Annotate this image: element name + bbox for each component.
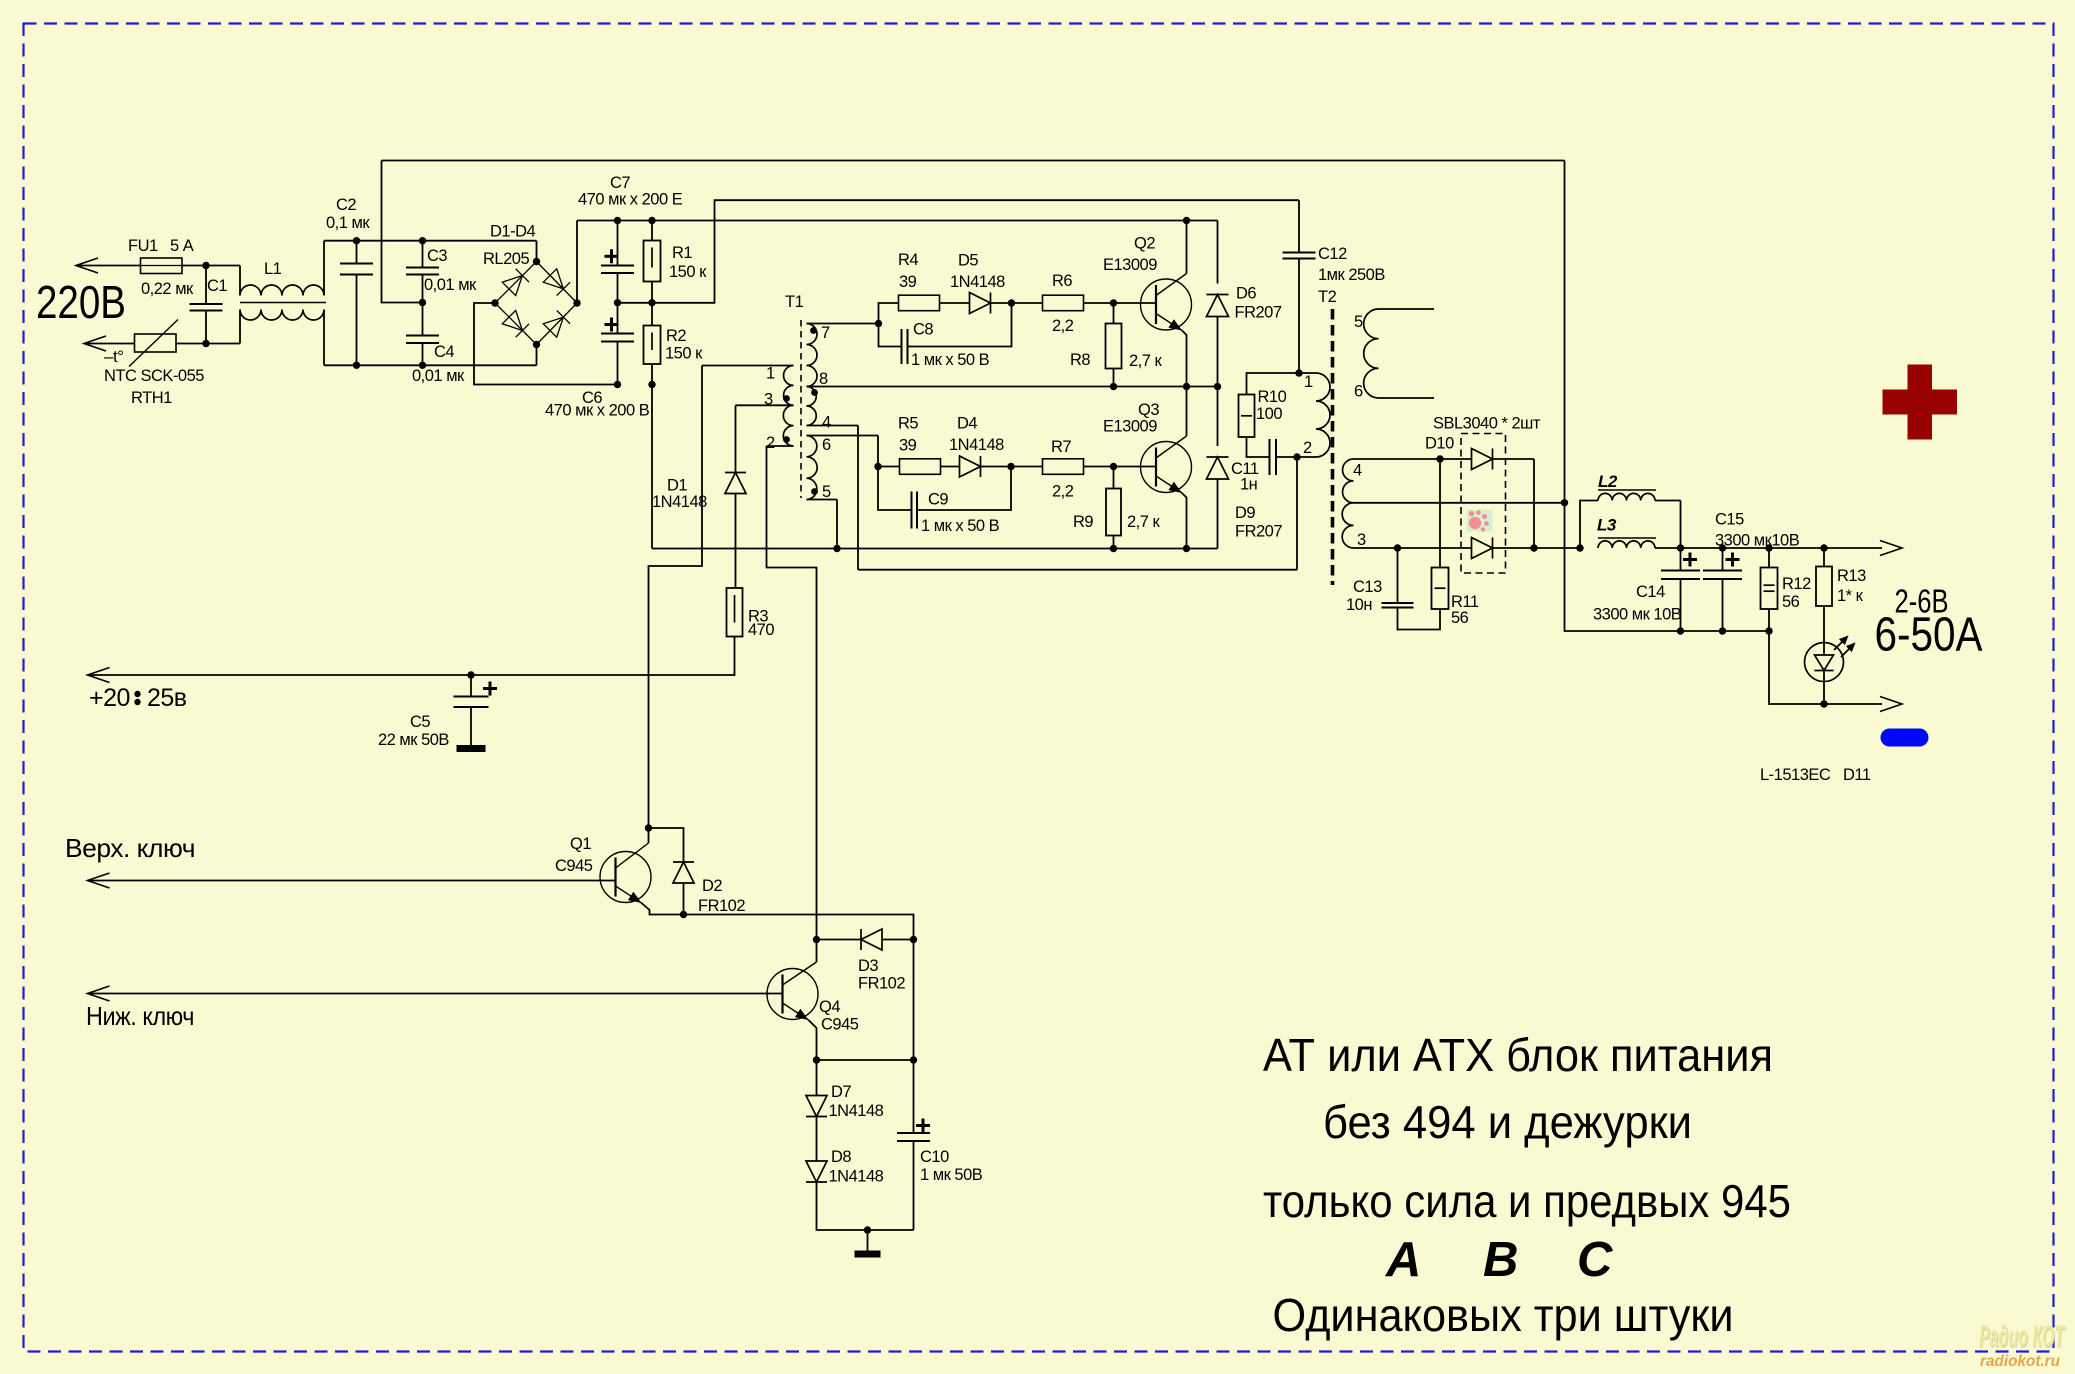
svg-text:0,01 мк: 0,01 мк bbox=[424, 276, 477, 294]
wire Q3 collector bbox=[1186, 387, 1188, 437]
T1 pin 5 wire bbox=[807, 499, 838, 501]
svg-text:L-1513EC: L-1513EC bbox=[1760, 766, 1831, 784]
svg-text:–t°: –t° bbox=[104, 347, 123, 366]
svg-text:R4: R4 bbox=[898, 251, 918, 269]
capacitor C7 bbox=[617, 221, 619, 266]
svg-text:C9: C9 bbox=[928, 491, 948, 509]
T2 pin 5 stub bbox=[1379, 308, 1435, 310]
svg-text:0,01 мк: 0,01 мк bbox=[412, 367, 465, 385]
wire minus return bbox=[1769, 631, 1882, 704]
svg-text:C1: C1 bbox=[207, 277, 227, 295]
wire Q2 collector bbox=[1186, 221, 1188, 274]
capacitor C11 bbox=[1269, 439, 1271, 475]
svg-text:Q3: Q3 bbox=[1138, 401, 1159, 419]
wire D4 to node bbox=[981, 466, 1012, 468]
node R1/R2 midpoint bbox=[648, 299, 655, 306]
svg-text:E13009: E13009 bbox=[1103, 418, 1157, 436]
node center tap bbox=[1561, 499, 1568, 506]
wire base node to Q2 bbox=[1114, 302, 1156, 304]
T1 phase dot pin 7 bbox=[810, 327, 817, 334]
wire primary bottom rail bbox=[652, 548, 1218, 550]
svg-text:220В: 220В bbox=[36, 276, 126, 328]
diode D4 bbox=[960, 456, 981, 477]
svg-text:6-50А: 6-50А bbox=[1875, 609, 1983, 662]
T2 core bbox=[1331, 309, 1335, 585]
svg-text:39: 39 bbox=[899, 437, 917, 455]
wire AC input line 2 bbox=[84, 343, 135, 345]
T1 secondary winding 6-5 bbox=[807, 436, 818, 500]
capacitor C14 bbox=[1680, 548, 1682, 571]
transistor Q3 bbox=[1141, 442, 1192, 493]
node D3 left bbox=[813, 936, 820, 943]
T2 pin 4 wire bbox=[1354, 458, 1441, 460]
svg-text:В: В bbox=[1483, 1233, 1518, 1287]
wire Q4 emitter rail bbox=[817, 1059, 914, 1061]
capacitor C2 bbox=[353, 237, 360, 244]
wire mid rail to C12 bbox=[618, 200, 1300, 303]
resistor R7 bbox=[1011, 466, 1043, 468]
diode D6 bbox=[1217, 221, 1219, 284]
capacitor C5 bbox=[467, 671, 474, 678]
wire plus output line bbox=[1681, 547, 1883, 549]
thermistor RTH1 bbox=[135, 334, 177, 352]
svg-text:FR102: FR102 bbox=[698, 897, 745, 915]
svg-text:C5: C5 bbox=[410, 713, 430, 731]
svg-text:6: 6 bbox=[1354, 383, 1363, 401]
svg-text:T1: T1 bbox=[785, 293, 804, 311]
node Q2 collector rail bbox=[1183, 217, 1190, 224]
svg-text:2,7 к: 2,7 к bbox=[1127, 513, 1161, 531]
svg-text:470: 470 bbox=[748, 621, 774, 639]
wire R2 bottom to rail bbox=[651, 385, 653, 549]
node C12/T2 pin1 bbox=[1295, 369, 1302, 376]
LED D11 bbox=[1823, 606, 1825, 643]
resistor R6 bbox=[1012, 302, 1043, 304]
node ground tap bbox=[864, 1226, 871, 1233]
svg-text:2,2: 2,2 bbox=[1052, 483, 1074, 501]
arrow upper key bbox=[88, 873, 110, 888]
T2 primary winding 1-2 bbox=[1316, 373, 1330, 457]
T1 secondary winding 7-8-4 bbox=[807, 324, 818, 387]
wire Q4 base bbox=[88, 993, 783, 995]
node C3 top bbox=[419, 237, 426, 244]
svg-text:D11: D11 bbox=[1843, 766, 1871, 784]
capacitor C1 bbox=[205, 266, 207, 305]
wire R7 to base node bbox=[1083, 466, 1114, 468]
svg-text:R13: R13 bbox=[1837, 567, 1866, 585]
svg-text:FU1: FU1 bbox=[128, 237, 158, 255]
node Q2 emitter rail bbox=[1183, 383, 1190, 390]
capacitor C15 bbox=[1722, 548, 1724, 571]
svg-text:10н: 10н bbox=[1346, 596, 1372, 614]
node Q2 base / R8 bbox=[1110, 299, 1117, 306]
wire AC input line 1 bbox=[76, 265, 141, 267]
svg-text:D6: D6 bbox=[1236, 285, 1256, 303]
svg-text:2: 2 bbox=[1303, 439, 1312, 457]
resistor R13 bbox=[1823, 548, 1825, 567]
wire lower auxiliary rail bbox=[858, 569, 1297, 571]
svg-text:R7: R7 bbox=[1051, 438, 1071, 456]
T1 core bbox=[800, 320, 802, 498]
wire R6 to base node bbox=[1083, 302, 1114, 304]
resistor R10 bbox=[1239, 395, 1255, 438]
node D4/R7/C9 junction bbox=[1007, 463, 1014, 470]
resistor R2 bbox=[644, 326, 661, 365]
node D6/D9 mid rail bbox=[1214, 383, 1221, 390]
wire R10 bottom to C11 bbox=[1247, 437, 1270, 457]
svg-text:D7: D7 bbox=[831, 1083, 851, 1101]
resistor R12 bbox=[1768, 548, 1770, 568]
node Q3 emitter rail bbox=[1183, 545, 1190, 552]
svg-text:R1: R1 bbox=[672, 244, 692, 262]
svg-text:Q4: Q4 bbox=[819, 998, 840, 1016]
diode D2 bbox=[673, 862, 694, 883]
svg-text:А: А bbox=[1385, 1233, 1421, 1287]
svg-text:АТ или АТХ блок питания: АТ или АТХ блок питания bbox=[1263, 1029, 1773, 1081]
svg-text:L1: L1 bbox=[264, 260, 282, 278]
node pin7 junction bbox=[875, 320, 882, 327]
node C7 top bbox=[614, 217, 621, 224]
arrow AC input 1 bbox=[76, 258, 98, 273]
svg-text:Одинаковых три штуки: Одинаковых три штуки bbox=[1273, 1289, 1734, 1341]
node R2 bottom bbox=[648, 381, 655, 388]
svg-text:6: 6 bbox=[822, 436, 831, 454]
svg-text:1N4148: 1N4148 bbox=[949, 436, 1004, 454]
wire bottom AC to bridge bbox=[357, 364, 537, 366]
svg-text:RTH1: RTH1 bbox=[131, 389, 172, 407]
svg-text:D4: D4 bbox=[957, 415, 977, 433]
wire Q1 base bbox=[88, 880, 616, 882]
wire bridge plus riser bbox=[576, 221, 578, 304]
svg-text:E13009: E13009 bbox=[1103, 256, 1157, 274]
wire R11 bottom jog bbox=[1398, 608, 1441, 630]
wire top plus rail bbox=[577, 220, 1218, 222]
svg-text:D3: D3 bbox=[858, 957, 878, 975]
svg-text:3: 3 bbox=[764, 391, 773, 409]
schottky module SBL3040 box bbox=[1461, 434, 1506, 574]
wire C12 drop bbox=[1298, 200, 1300, 252]
inductor L3 bbox=[1598, 541, 1655, 548]
svg-text:L2: L2 bbox=[1598, 472, 1618, 491]
svg-text:D8: D8 bbox=[831, 1148, 851, 1166]
wire pin7 node up to R4 bbox=[879, 303, 899, 324]
T2 winding 4-3 bbox=[1343, 459, 1354, 503]
svg-text:1N4148: 1N4148 bbox=[950, 273, 1005, 291]
node Q3 base / R9 bbox=[1110, 463, 1117, 470]
svg-text:C945: C945 bbox=[821, 1016, 859, 1034]
resistor R8 bbox=[1113, 303, 1115, 324]
node pin5 rail junction bbox=[833, 545, 840, 552]
svg-text:radiokot.ru: radiokot.ru bbox=[1980, 1353, 2060, 1370]
T1 phase dot pin 2 bbox=[783, 436, 790, 443]
svg-text:Радио КОТ: Радио КОТ bbox=[1979, 1320, 2065, 1353]
svg-text:R5: R5 bbox=[898, 415, 918, 433]
T1 phase dot pin 8 bbox=[811, 389, 818, 396]
svg-text:C8: C8 bbox=[913, 321, 933, 339]
arrow AC input 2 bbox=[84, 336, 106, 351]
svg-text:D2: D2 bbox=[702, 877, 722, 895]
wire R11 drop bbox=[1439, 459, 1441, 568]
svg-text:только сила и предвых 945: только сила и предвых 945 bbox=[1263, 1175, 1791, 1227]
node R1 top bbox=[648, 217, 655, 224]
watermark paw bbox=[1467, 510, 1493, 532]
svg-text:1 мк x 50 В: 1 мк x 50 В bbox=[911, 351, 990, 369]
svg-text:R8: R8 bbox=[1070, 351, 1090, 369]
wire pin1 to Q1 collector bbox=[649, 366, 703, 844]
svg-text:C7: C7 bbox=[610, 174, 630, 192]
T1 pin 7 wire bbox=[807, 323, 879, 325]
svg-text:56: 56 bbox=[1782, 593, 1800, 611]
svg-text:R6: R6 bbox=[1052, 272, 1072, 290]
node junction C1 top bbox=[202, 262, 209, 269]
LED arrows bbox=[1834, 637, 1854, 657]
svg-text:5: 5 bbox=[822, 483, 831, 501]
T2 pin 6 stub bbox=[1379, 397, 1435, 399]
svg-text:0,1 мк: 0,1 мк bbox=[326, 214, 370, 232]
T2 winding 5-6 bbox=[1364, 309, 1379, 398]
node C4 bottom bbox=[419, 362, 426, 369]
node C3/C4 midpoint bbox=[419, 299, 426, 306]
svg-text:D9: D9 bbox=[1235, 504, 1255, 522]
svg-text:NTC SCK-055: NTC SCK-055 bbox=[104, 367, 204, 385]
inductor L2 bbox=[1580, 501, 1598, 549]
watermark radiokot bbox=[1979, 1320, 2065, 1370]
svg-text:4: 4 bbox=[822, 414, 831, 432]
svg-text:2,7 к: 2,7 к bbox=[1129, 352, 1163, 370]
svg-text:1N4148: 1N4148 bbox=[652, 493, 707, 511]
diode D3 bbox=[817, 939, 862, 941]
T2 pin 3 wire bbox=[1354, 547, 1398, 549]
wire pin2 to Q4 collector bbox=[767, 446, 817, 962]
T1 pin 3 wire bbox=[736, 404, 794, 406]
svg-text:7: 7 bbox=[821, 324, 830, 342]
node C6 bottom bbox=[614, 381, 621, 388]
node diode output join bbox=[1530, 544, 1537, 551]
wire pin6 down to node bbox=[877, 436, 879, 467]
svg-text:1: 1 bbox=[1304, 373, 1313, 391]
svg-text:C4: C4 bbox=[434, 343, 454, 361]
wire L1 to C2 bottom bbox=[324, 364, 357, 366]
transistor Q4 bbox=[767, 969, 818, 1020]
svg-text:0,22 мк: 0,22 мк bbox=[141, 280, 194, 298]
node C11/T2 pin2 bbox=[1293, 453, 1300, 460]
capacitor C13 bbox=[1397, 548, 1399, 603]
svg-text:150 к: 150 к bbox=[669, 263, 707, 281]
svg-text:1N4148: 1N4148 bbox=[829, 1102, 884, 1120]
node L2/L3 right bbox=[1680, 501, 1682, 549]
wire pin5 to bottom rail bbox=[836, 500, 838, 549]
ground symbol bbox=[867, 1230, 869, 1251]
node C7/C6 midpoint bbox=[614, 299, 621, 306]
node Q4 emitter rail left bbox=[813, 1056, 820, 1063]
svg-text:T2: T2 bbox=[1318, 288, 1337, 306]
wire L1 to C2 top bbox=[324, 240, 357, 242]
svg-text:Верх. ключ: Верх. ключ bbox=[65, 833, 195, 863]
T2 center tap wire bbox=[1354, 502, 1565, 504]
arrow plus output bbox=[1880, 541, 1902, 556]
wire R10 top bbox=[1247, 373, 1300, 395]
svg-text:Q1: Q1 bbox=[570, 835, 591, 853]
wire base node to Q3 bbox=[1114, 466, 1156, 468]
svg-text:3300 мк 10В: 3300 мк 10В bbox=[1593, 606, 1682, 624]
wire pin2 node to lower rail bbox=[1296, 457, 1298, 570]
wire output to L-filter bbox=[1534, 547, 1580, 549]
svg-text:C14: C14 bbox=[1636, 583, 1665, 601]
T1 pin 1 wire bbox=[702, 365, 794, 367]
svg-text:L3: L3 bbox=[1597, 516, 1617, 535]
svg-text:R12: R12 bbox=[1782, 575, 1811, 593]
T1 phase dot pin 3 bbox=[783, 395, 790, 402]
svg-text:1н: 1н bbox=[1240, 476, 1257, 494]
svg-text:1* к: 1* к bbox=[1837, 587, 1864, 605]
svg-text:C12: C12 bbox=[1318, 245, 1347, 263]
wire pin4 to lower rail bbox=[857, 426, 859, 570]
node D2 bottom bbox=[680, 911, 687, 918]
svg-text:FR102: FR102 bbox=[858, 975, 905, 993]
wire D5 to node bbox=[991, 302, 1012, 304]
wire fuse to C1 node bbox=[182, 265, 240, 267]
resistor R9 bbox=[1113, 467, 1115, 489]
node junction C1 bottom bbox=[202, 340, 209, 347]
T2 pin 1 wire bbox=[1299, 372, 1316, 374]
fuse FU1 bbox=[141, 258, 183, 274]
svg-text:2,2: 2,2 bbox=[1052, 317, 1074, 335]
T1 phase dot pin 5 bbox=[811, 488, 818, 495]
svg-text:R2: R2 bbox=[666, 327, 686, 345]
wire Q1 emitter rail bbox=[642, 903, 914, 940]
svg-text:5: 5 bbox=[1354, 313, 1363, 331]
capacitor C12 bbox=[1283, 252, 1316, 254]
node R8 bottom bbox=[1110, 383, 1117, 390]
svg-text:D5: D5 bbox=[958, 252, 978, 270]
wire R4 to D5 bbox=[940, 302, 970, 304]
wire Q2 emitter bbox=[1182, 331, 1187, 387]
node Q4 emitter rail right bbox=[910, 1056, 917, 1063]
T1 pin 6 wire bbox=[807, 435, 879, 437]
resistor R1 bbox=[644, 241, 661, 282]
capacitor C10 bbox=[913, 940, 915, 1061]
T1 pin 2 wire bbox=[767, 445, 794, 447]
minus symbol output bbox=[1881, 729, 1929, 747]
node Q1 collector bbox=[645, 824, 652, 831]
node D10 anode bbox=[1436, 455, 1443, 462]
node C13 top bbox=[1394, 544, 1401, 551]
diode D8 bbox=[816, 1117, 818, 1162]
svg-text:SBL3040 * 2шт: SBL3040 * 2шт bbox=[1433, 415, 1541, 433]
svg-text:Ниж. ключ: Ниж. ключ bbox=[86, 1001, 194, 1031]
wire Q3 emitter bbox=[1182, 493, 1187, 549]
svg-text:R9: R9 bbox=[1073, 513, 1093, 531]
diode D1 bbox=[735, 405, 737, 472]
wire D8 to ground rail bbox=[817, 1182, 914, 1230]
svg-text:С: С bbox=[1577, 1233, 1613, 1287]
capacitor C8 bbox=[879, 324, 902, 347]
T1 primary winding 1-3-2 bbox=[784, 366, 794, 406]
svg-text:1N4148: 1N4148 bbox=[829, 1168, 884, 1186]
transistor Q1 bbox=[600, 852, 651, 903]
node D5/R6/C8 junction bbox=[1008, 299, 1015, 306]
svg-text:C2: C2 bbox=[336, 196, 356, 214]
diode D9 bbox=[1217, 387, 1219, 447]
wire Q4 emitter bbox=[809, 1020, 817, 1060]
transistor Q2 bbox=[1141, 279, 1192, 330]
svg-text:150 к: 150 к bbox=[665, 345, 703, 363]
ground C5 bbox=[457, 745, 486, 752]
diode D5 bbox=[970, 293, 991, 314]
capacitor C6 bbox=[617, 303, 619, 334]
svg-text:FR207: FR207 bbox=[1235, 304, 1282, 322]
svg-text:R10: R10 bbox=[1258, 388, 1287, 406]
resistor R11 bbox=[1432, 568, 1449, 610]
wire Q1 collector to D2 bbox=[649, 828, 684, 862]
capacitor C4 bbox=[422, 303, 424, 336]
plus symbol output bbox=[1883, 365, 1958, 440]
capacitor C3 bbox=[422, 241, 424, 268]
svg-text:1мк 250В: 1мк 250В bbox=[1318, 266, 1385, 284]
wire emitter mid rail bbox=[818, 386, 1218, 388]
svg-text:22 мк 50В: 22 мк 50В bbox=[378, 731, 449, 749]
wire node to R5 bbox=[878, 466, 900, 468]
arrow lower key bbox=[88, 986, 110, 1001]
wire thermistor to C1 bottom bbox=[176, 343, 240, 345]
node R9 bottom rail bbox=[1110, 545, 1117, 552]
svg-text:25в: 25в bbox=[147, 684, 187, 712]
svg-text:C3: C3 bbox=[427, 247, 447, 265]
svg-text:D10: D10 bbox=[1425, 435, 1454, 453]
node pin6 junction bbox=[874, 463, 881, 470]
node L2/L3 left bbox=[1576, 544, 1583, 551]
svg-text:3300 мк10В: 3300 мк10В bbox=[1715, 532, 1800, 550]
T1 pin 4 wire bbox=[807, 425, 859, 427]
svg-text:4: 4 bbox=[1353, 462, 1362, 480]
arrow minus output bbox=[1880, 697, 1902, 712]
wire R5 to D4 bbox=[940, 466, 960, 468]
svg-text:8: 8 bbox=[819, 370, 828, 388]
T2 pin 2 wire bbox=[1297, 456, 1316, 458]
diode D10 lower bbox=[1398, 547, 1472, 549]
resistor R4 bbox=[899, 295, 940, 311]
svg-text:470 мк x 200 В: 470 мк x 200 В bbox=[545, 402, 650, 420]
wire neutral midpoint riser bbox=[382, 161, 423, 303]
svg-text:RL205: RL205 bbox=[483, 250, 529, 268]
resistor R3 bbox=[727, 588, 743, 637]
node D3 right bbox=[910, 936, 917, 943]
svg-text:1 мк x 50 В: 1 мк x 50 В bbox=[921, 517, 1000, 535]
svg-text:Q2: Q2 bbox=[1134, 235, 1155, 253]
svg-text:C13: C13 bbox=[1353, 578, 1382, 596]
capacitor C9 bbox=[878, 467, 912, 511]
svg-text:5 А: 5 А bbox=[170, 237, 194, 255]
diode D7 bbox=[816, 1060, 818, 1096]
wire R3 bottom to +20 rail bbox=[88, 637, 735, 676]
svg-text:C15: C15 bbox=[1715, 511, 1744, 529]
svg-text:100: 100 bbox=[1256, 405, 1282, 423]
svg-text:D1: D1 bbox=[667, 477, 687, 495]
svg-text:470 мк x 200 Е: 470 мк x 200 Е bbox=[578, 191, 683, 209]
svg-text:C945: C945 bbox=[555, 857, 593, 875]
svg-text:39: 39 bbox=[899, 273, 917, 291]
svg-text:3: 3 bbox=[1357, 531, 1366, 549]
svg-text:C10: C10 bbox=[920, 1148, 949, 1166]
svg-text:D1-D4: D1-D4 bbox=[490, 223, 536, 241]
T1 pin 8 wire bbox=[807, 386, 818, 388]
svg-text:1: 1 bbox=[766, 365, 775, 383]
arrow +20 rail bbox=[88, 668, 110, 683]
wire D10 cathode drop bbox=[1533, 459, 1535, 548]
wire bridge minus jog bbox=[474, 303, 618, 385]
svg-text:1 мк 50В: 1 мк 50В bbox=[920, 1166, 983, 1184]
wire top AC to bridge bbox=[357, 240, 537, 242]
